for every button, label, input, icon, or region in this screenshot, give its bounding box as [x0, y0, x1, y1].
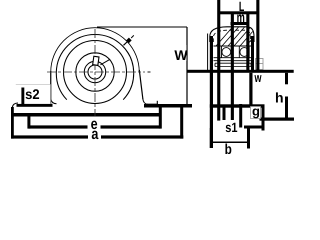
svg-text:m: m: [237, 9, 245, 26]
s2 dimension line: [17, 104, 53, 107]
vertical center line: [94, 29, 96, 116]
side view part left edge: [210, 36, 213, 148]
b right tick: [247, 127, 250, 149]
side view inner dashed arc: [213, 30, 250, 42]
grease fitting tip tick: [131, 35, 134, 38]
collar right end: [250, 63, 252, 66]
race wall left-a: [221, 46, 223, 58]
housing right side: [139, 70, 143, 99]
svg-text:g: g: [252, 104, 260, 119]
W dimension line: [186, 27, 188, 105]
ball left: [222, 48, 231, 57]
center width line: [187, 70, 294, 73]
m left tick: [231, 14, 234, 121]
grease nipple side: [256, 59, 264, 70]
g tick: [262, 106, 265, 131]
h tick lower: [285, 97, 288, 120]
svg-text:s1: s1: [225, 120, 238, 135]
svg-text:a: a: [91, 126, 98, 143]
b left tick: [210, 128, 213, 148]
h tick upper: [285, 73, 288, 85]
L left tick: [217, 0, 220, 121]
ball right: [240, 48, 249, 57]
bearing inner ring: [84, 61, 105, 82]
ground line right: [144, 104, 192, 108]
nipple inner line: [256, 63, 264, 65]
base top line right: [147, 103, 158, 105]
m dimension line: [231, 22, 250, 25]
g bottom line: [244, 126, 264, 129]
bore line lower: [214, 60, 253, 62]
pedestal right edge: [249, 73, 252, 108]
left base fillet: [51, 99, 57, 104]
bore line upper: [214, 57, 253, 59]
collar line upper: [215, 62, 251, 64]
race wall right-a: [238, 46, 240, 58]
h top extension: [260, 118, 295, 121]
W leader line: [97, 26, 187, 28]
b label: [223, 144, 234, 155]
base right edge: [156, 101, 158, 105]
inner ring top face line: [214, 45, 253, 47]
b dimension line: [211, 141, 249, 143]
grease fitting: [126, 38, 132, 44]
collar line lower: [215, 66, 251, 68]
L dimension line: [219, 11, 259, 14]
svg-text:s2: s2: [25, 86, 40, 102]
s1 label: [222, 120, 237, 132]
h label: [274, 91, 285, 103]
g label: [251, 107, 261, 119]
s2 tick: [21, 88, 24, 107]
e label: [88, 120, 101, 129]
hatch left panel: [202, 22, 273, 62]
race wall right-b: [248, 46, 250, 58]
slot lower tick: [239, 104, 242, 128]
W label: [174, 45, 187, 61]
lower reference line: [11, 113, 161, 117]
side view outer left thin edge: [207, 34, 209, 73]
bore circle: [88, 65, 102, 79]
horizontal center line: [47, 71, 145, 73]
e dimension line: [29, 125, 161, 128]
svg-text:w: w: [254, 70, 262, 85]
set screw diagonal: [101, 59, 111, 65]
grease fitting stem: [124, 42, 128, 46]
center line end dash: [148, 71, 151, 73]
side base bottom: [210, 104, 265, 107]
slot edge tick: [223, 108, 226, 121]
a label: [88, 130, 101, 139]
a left tick: [11, 107, 14, 139]
bearing circle boss2: [64, 41, 127, 104]
set screw: [93, 56, 99, 65]
bearing outer ring: [76, 53, 114, 91]
housing left side: [50, 71, 52, 101]
front view housing dome arc: [51, 28, 140, 72]
a dimension line: [11, 135, 183, 138]
m right tick: [246, 14, 249, 73]
right base fillet: [143, 99, 148, 105]
L right tick: [256, 0, 259, 73]
bearing circle outer boss: [56, 34, 133, 99]
svg-text:b: b: [225, 142, 232, 154]
e left tick: [27, 116, 30, 129]
collar left end: [214, 63, 216, 66]
e right tick: [159, 107, 162, 129]
base left corner fillet: [12, 103, 18, 107]
svg-text:h: h: [275, 89, 284, 105]
side view part right edge: [251, 36, 254, 73]
s2 label box: [16, 85, 51, 104]
side view arch outline: [210, 27, 254, 42]
svg-text:W: W: [174, 47, 188, 63]
race wall left-b: [230, 46, 232, 58]
a right tick: [180, 108, 183, 139]
